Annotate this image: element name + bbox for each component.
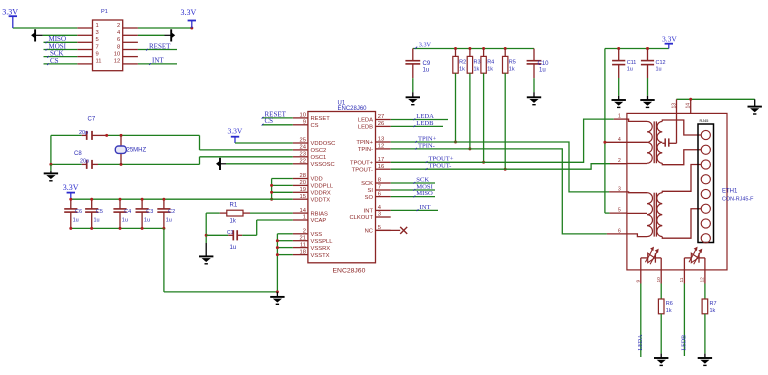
svg-text:TPOUT-: TPOUT- — [429, 163, 452, 170]
svg-text:LEDA: LEDA — [638, 334, 644, 351]
svg-text:1u: 1u — [166, 217, 172, 223]
svg-text:1u: 1u — [73, 217, 79, 223]
svg-text:CS: CS — [265, 117, 274, 125]
svg-text:21: 21 — [300, 235, 306, 241]
svg-text:5: 5 — [96, 37, 99, 43]
svg-text:R1: R1 — [230, 203, 238, 209]
svg-text:13: 13 — [378, 137, 384, 143]
svg-text:C6: C6 — [75, 209, 82, 215]
svg-text:6: 6 — [117, 37, 120, 43]
svg-text:20: 20 — [300, 180, 306, 186]
svg-text:1k: 1k — [710, 308, 716, 314]
svg-text:VSSTX: VSSTX — [311, 253, 330, 259]
svg-text:20p: 20p — [79, 130, 88, 136]
svg-text:MISO: MISO — [416, 190, 433, 197]
svg-text:9: 9 — [635, 280, 641, 283]
svg-text:R5: R5 — [509, 60, 516, 66]
svg-text:TPOUT+: TPOUT+ — [350, 161, 374, 167]
svg-text:12: 12 — [700, 277, 706, 283]
svg-text:RESET: RESET — [149, 42, 171, 50]
svg-text:CS: CS — [311, 123, 319, 129]
svg-text:11: 11 — [679, 277, 685, 282]
svg-text:3.3V: 3.3V — [419, 41, 432, 48]
svg-text:RJ45: RJ45 — [700, 119, 709, 123]
svg-text:VDD: VDD — [311, 177, 323, 183]
svg-text:2: 2 — [303, 229, 306, 235]
svg-text:1k: 1k — [459, 67, 465, 73]
svg-text:7: 7 — [378, 185, 381, 191]
svg-text:28: 28 — [300, 173, 306, 179]
svg-text:VDDOSC: VDDOSC — [311, 141, 336, 147]
svg-text:LEDB: LEDB — [416, 120, 434, 127]
svg-text:1: 1 — [96, 23, 99, 29]
svg-text:3: 3 — [378, 212, 381, 218]
svg-text:17: 17 — [378, 157, 384, 163]
svg-text:C10: C10 — [538, 61, 550, 67]
svg-text:SCK: SCK — [361, 181, 373, 187]
svg-text:13: 13 — [671, 103, 677, 109]
svg-text:C4: C4 — [124, 209, 131, 215]
svg-text:INT: INT — [420, 204, 431, 211]
svg-text:12: 12 — [378, 144, 384, 150]
svg-text:VDDPLL: VDDPLL — [311, 184, 334, 190]
svg-text:C12: C12 — [656, 60, 666, 66]
svg-text:ETH1: ETH1 — [722, 189, 738, 195]
svg-text:C9: C9 — [423, 61, 431, 67]
svg-text:NC: NC — [365, 229, 373, 235]
svg-text:SCK: SCK — [416, 176, 429, 183]
svg-text:VDDRX: VDDRX — [311, 191, 331, 197]
svg-text:VSSRX: VSSRX — [311, 246, 331, 252]
svg-text:1k: 1k — [230, 218, 237, 224]
svg-text:INT: INT — [364, 209, 374, 215]
svg-text:1u: 1u — [230, 245, 237, 251]
svg-text:LEDA: LEDA — [358, 118, 373, 124]
svg-text:CS: CS — [50, 57, 59, 65]
svg-text:19: 19 — [300, 187, 306, 193]
svg-text:3.3V: 3.3V — [228, 127, 243, 136]
svg-text:9: 9 — [96, 51, 99, 57]
svg-text:8: 8 — [378, 178, 381, 184]
svg-text:1u: 1u — [627, 66, 633, 72]
svg-text:LEDB: LEDB — [358, 125, 373, 131]
svg-text:1u: 1u — [144, 217, 150, 223]
svg-text:16: 16 — [378, 164, 384, 170]
svg-text:VSSPLL: VSSPLL — [311, 239, 334, 245]
svg-text:6: 6 — [378, 191, 381, 197]
svg-text:1k: 1k — [509, 67, 515, 73]
svg-text:15: 15 — [300, 194, 306, 200]
svg-text:ENC28J60: ENC28J60 — [338, 106, 368, 112]
svg-text:LEDB: LEDB — [682, 335, 688, 351]
svg-text:25: 25 — [300, 138, 306, 144]
svg-text:22: 22 — [300, 159, 306, 165]
svg-text:C8: C8 — [74, 151, 82, 157]
svg-text:1k: 1k — [474, 67, 480, 73]
svg-text:14: 14 — [300, 208, 307, 214]
svg-text:RBIAS: RBIAS — [311, 211, 329, 217]
svg-text:3.3V: 3.3V — [2, 7, 18, 16]
svg-text:OSC2: OSC2 — [311, 148, 327, 154]
svg-text:TPIN-: TPIN- — [358, 147, 373, 153]
svg-text:VDDTX: VDDTX — [311, 197, 331, 203]
svg-text:SI: SI — [368, 188, 374, 194]
svg-text:27: 27 — [378, 114, 384, 120]
svg-text:20p: 20p — [80, 159, 89, 165]
svg-text:C5: C5 — [96, 209, 103, 215]
svg-text:P1: P1 — [101, 9, 108, 15]
svg-text:25MHZ: 25MHZ — [127, 148, 147, 154]
svg-text:R2: R2 — [459, 60, 466, 66]
svg-text:C7: C7 — [88, 117, 96, 123]
svg-text:26: 26 — [378, 121, 384, 127]
svg-text:TPOUT-: TPOUT- — [352, 167, 373, 173]
svg-text:10: 10 — [656, 277, 662, 283]
svg-text:1u: 1u — [94, 217, 100, 223]
svg-text:9: 9 — [303, 120, 306, 126]
svg-text:8: 8 — [117, 44, 120, 50]
svg-text:1u: 1u — [423, 68, 430, 74]
svg-text:18: 18 — [300, 249, 306, 255]
svg-text:10: 10 — [114, 51, 120, 57]
svg-text:3: 3 — [96, 30, 99, 36]
svg-text:1u: 1u — [656, 66, 662, 72]
svg-text:TPIN+: TPIN+ — [356, 140, 373, 146]
svg-text:1k: 1k — [487, 67, 493, 73]
svg-text:ENC28J60: ENC28J60 — [333, 267, 366, 274]
svg-text:24: 24 — [300, 145, 307, 151]
svg-text:OSC1: OSC1 — [311, 155, 327, 161]
svg-text:10: 10 — [300, 113, 306, 119]
svg-text:1k: 1k — [666, 308, 672, 314]
svg-text:RESET: RESET — [311, 116, 331, 122]
svg-text:14: 14 — [686, 103, 692, 109]
svg-text:R7: R7 — [710, 301, 717, 307]
svg-text:C11: C11 — [627, 60, 637, 66]
svg-text:11: 11 — [300, 242, 306, 248]
svg-text:3.3V: 3.3V — [662, 34, 677, 43]
svg-text:INT: INT — [152, 57, 164, 65]
svg-text:CON-RJ45-F: CON-RJ45-F — [722, 197, 754, 203]
svg-text:C3: C3 — [146, 209, 153, 215]
svg-text:2: 2 — [117, 23, 120, 29]
svg-text:23: 23 — [300, 152, 306, 158]
svg-text:C2: C2 — [168, 209, 175, 215]
svg-text:R6: R6 — [666, 301, 673, 307]
svg-text:VSSOSC: VSSOSC — [311, 162, 335, 168]
svg-text:R3: R3 — [474, 60, 481, 66]
svg-text:12: 12 — [114, 59, 120, 65]
svg-text:R4: R4 — [487, 60, 494, 66]
svg-text:1u: 1u — [122, 217, 128, 223]
svg-text:1u: 1u — [539, 68, 546, 74]
svg-text:VSS: VSS — [311, 232, 323, 238]
svg-text:VCAP: VCAP — [311, 218, 327, 224]
svg-text:SO: SO — [365, 195, 374, 201]
svg-text:3.3V: 3.3V — [181, 8, 197, 17]
svg-text:11: 11 — [96, 59, 102, 65]
svg-text:3.3V: 3.3V — [63, 183, 79, 192]
svg-text:7: 7 — [96, 44, 99, 50]
svg-text:CLKOUT: CLKOUT — [349, 215, 373, 221]
svg-text:TPIN-: TPIN- — [418, 142, 435, 149]
svg-text:1: 1 — [303, 215, 306, 221]
